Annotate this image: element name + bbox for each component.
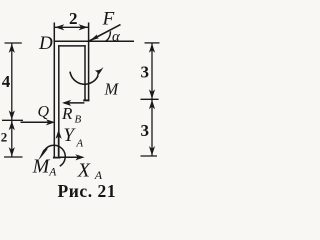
left member outer line (with dimension tick extension above D) (53, 23, 55, 158)
svg-text:Рис. 21: Рис. 21 (58, 181, 117, 201)
svg-text:Y: Y (63, 125, 76, 146)
svg-text:R: R (61, 104, 73, 123)
moment M_A arrowhead (points down-left) (38, 148, 48, 160)
svg-text:2: 2 (69, 9, 78, 28)
right dim arrow up (top of second 3) (149, 100, 155, 109)
right member outer line (with tick extension above corner) (88, 23, 90, 101)
force Q arrow (points right, at wall) (21, 121, 54, 123)
svg-text:M: M (104, 80, 120, 99)
svg-text:3: 3 (141, 121, 150, 140)
moment M_A arc around support A (counterclockwise) (45, 145, 65, 166)
right member inner line (84, 45, 86, 100)
right dim tick at B level (141, 98, 159, 100)
left dim arrow down (bottom of 2) (9, 147, 15, 156)
svg-text:F: F (102, 9, 115, 30)
svg-text:D: D (38, 33, 53, 54)
top dimension line (2) (54, 26, 88, 28)
right dimension line (3 and 3) (141, 43, 160, 156)
svg-text:Q: Q (38, 104, 50, 121)
frame top outer chord + horizontal reference line for angle (54, 40, 134, 42)
left dim tick at base level (4, 156, 23, 158)
svg-text:B: B (75, 114, 82, 126)
reaction R_B arrow (points left) (64, 102, 84, 104)
frame top inner line (58, 45, 86, 47)
svg-text:M: M (32, 155, 51, 177)
right dim vertical line (151, 43, 153, 156)
top dim right arrow (79, 24, 88, 30)
svg-text:α: α (112, 29, 121, 45)
left dim tick at D level (5, 42, 22, 44)
force F arrowhead (points down-left into corner) (90, 34, 99, 41)
svg-text:4: 4 (2, 72, 11, 91)
left dim arrow up (top of 4) (9, 44, 15, 53)
top dim left arrow (55, 24, 64, 30)
svg-text:A: A (48, 166, 57, 178)
right dim arrow down (bottom of second 3) (149, 146, 155, 155)
left dim arrow up (top of 2) (9, 121, 15, 130)
svg-text:X: X (77, 160, 91, 182)
left dim vertical line (11, 43, 13, 157)
svg-text:A: A (75, 138, 83, 150)
angle alpha arc (106, 31, 111, 41)
svg-text:2: 2 (1, 130, 8, 145)
right dim arrow down (bottom of first 3) (149, 89, 155, 98)
reaction Y_A arrow (points up along member axis) (58, 132, 60, 157)
left member inner line (58, 45, 60, 157)
moment M arc at right member (70, 72, 98, 85)
left dim tick at Q level (2, 119, 23, 121)
end cap at roller point B (83, 99, 89, 101)
moment M arrowhead (points up-right) (95, 67, 104, 77)
right dim arrow up (top of first 3) (149, 44, 155, 53)
force F line of action (89, 25, 120, 41)
left dimension line (4 and 2) (2, 43, 23, 157)
base cap at support A (53, 157, 61, 159)
right dim tick at bottom level (141, 155, 158, 157)
svg-text:A: A (94, 168, 103, 182)
reaction X_A arrow (points right from A) (60, 156, 83, 158)
right dim tick at top level (145, 42, 160, 44)
left dim arrow down (bottom of 4) (9, 110, 15, 119)
svg-text:3: 3 (141, 63, 150, 82)
